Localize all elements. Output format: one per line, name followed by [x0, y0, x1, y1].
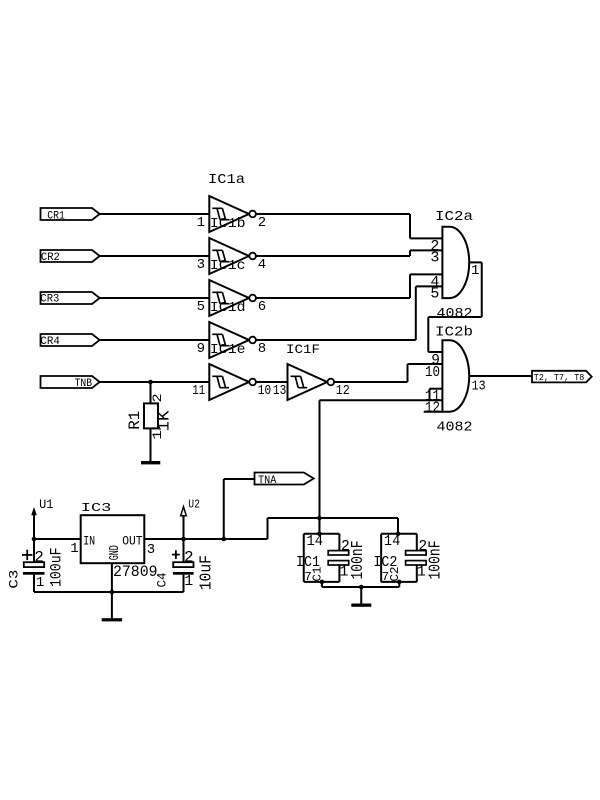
- svg-text:1K: 1K: [154, 410, 173, 431]
- svg-text:1: 1: [184, 573, 193, 590]
- svg-text:IC1c: IC1c: [210, 258, 246, 274]
- svg-text:3: 3: [430, 250, 439, 267]
- svg-text:2: 2: [34, 549, 44, 567]
- svg-text:C3: C3: [7, 570, 22, 589]
- svg-text:R1: R1: [126, 411, 144, 430]
- svg-text:2: 2: [184, 548, 194, 566]
- svg-text:1: 1: [197, 215, 205, 231]
- svg-text:IC1d: IC1d: [210, 300, 246, 316]
- svg-text:IC3: IC3: [81, 501, 112, 515]
- svg-text:U2: U2: [188, 499, 200, 512]
- svg-text:100nF: 100nF: [427, 541, 446, 580]
- svg-text:CR1: CR1: [47, 210, 65, 222]
- svg-text:TNB: TNB: [75, 378, 93, 390]
- svg-text:CR2: CR2: [41, 252, 60, 264]
- svg-text:13: 13: [472, 379, 486, 395]
- svg-text:8: 8: [258, 341, 266, 357]
- svg-text:12: 12: [425, 401, 440, 417]
- svg-text:4082: 4082: [437, 419, 473, 435]
- svg-text:3: 3: [147, 542, 155, 558]
- svg-text:27809: 27809: [113, 563, 158, 581]
- svg-text:13: 13: [273, 383, 286, 399]
- svg-text:2: 2: [150, 393, 165, 402]
- svg-text:IC2b: IC2b: [435, 325, 473, 341]
- svg-text:5: 5: [197, 299, 205, 315]
- svg-text:IN: IN: [83, 535, 95, 549]
- svg-text:1: 1: [150, 430, 165, 440]
- svg-text:10: 10: [425, 365, 440, 381]
- svg-text:IC1e: IC1e: [210, 342, 246, 358]
- svg-text:1: 1: [340, 564, 349, 581]
- svg-text:5: 5: [430, 286, 439, 303]
- svg-text:2: 2: [258, 215, 266, 231]
- svg-text:1: 1: [417, 564, 426, 581]
- svg-text:11: 11: [192, 383, 205, 399]
- svg-text:10: 10: [258, 383, 271, 399]
- svg-text:3: 3: [197, 257, 205, 273]
- svg-text:IC1a: IC1a: [208, 172, 245, 188]
- svg-text:100nF: 100nF: [349, 541, 368, 580]
- svg-text:10uF: 10uF: [197, 555, 216, 590]
- svg-text:C1: C1: [312, 566, 325, 581]
- svg-text:14: 14: [384, 533, 401, 550]
- svg-text:14: 14: [307, 533, 324, 550]
- svg-text:1: 1: [70, 541, 78, 557]
- svg-text:1: 1: [36, 575, 44, 591]
- svg-text:IC2a: IC2a: [435, 209, 473, 225]
- svg-text:6: 6: [258, 299, 266, 315]
- svg-text:C2: C2: [389, 566, 402, 581]
- svg-text:4: 4: [258, 257, 266, 273]
- svg-text:1: 1: [471, 263, 479, 279]
- svg-text:TNA: TNA: [258, 475, 277, 487]
- svg-text:12: 12: [336, 383, 350, 399]
- svg-text:T2, T7, T8: T2, T7, T8: [534, 373, 585, 383]
- svg-text:IC1b: IC1b: [210, 216, 246, 232]
- svg-text:CR3: CR3: [40, 293, 59, 305]
- svg-text:OUT: OUT: [122, 534, 142, 549]
- svg-text:CR4: CR4: [40, 336, 60, 348]
- svg-text:4082: 4082: [437, 306, 473, 322]
- svg-text:9: 9: [197, 341, 205, 357]
- svg-text:C4: C4: [155, 572, 170, 587]
- svg-text:U1: U1: [39, 497, 53, 512]
- svg-text:IC1F: IC1F: [286, 342, 320, 357]
- svg-text:100uF: 100uF: [47, 548, 65, 588]
- svg-text:GND: GND: [107, 545, 123, 560]
